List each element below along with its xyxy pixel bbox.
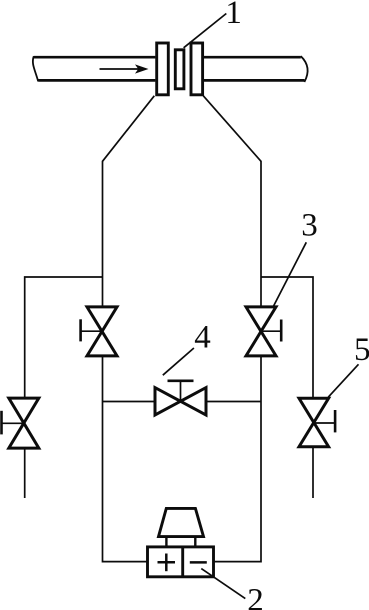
transmitter neck right [194,537,196,547]
pipe top wall right segment [204,56,301,59]
equalizing valve 4 [155,381,206,415]
minus sign (LP chamber) [190,561,207,564]
svg-text:1: 1 [225,0,242,31]
transmitter 2 head (trapezoid) [159,508,204,536]
svg-text:5: 5 [354,332,369,368]
svg-text:4: 4 [194,319,211,355]
pipe right break line [301,56,308,82]
leader line to label 3 [273,242,307,307]
transmitter 2 body [148,547,214,577]
low-pressure impulse line (right vertical + bottom elbow) [214,161,261,562]
svg-text:3: 3 [301,208,318,244]
right blowdown branch wire [261,277,313,498]
pipe bottom wall right segment [204,79,305,82]
equalizer wire [103,401,262,403]
left blowdown branch wire [25,277,103,498]
leader line to label 2 [201,569,245,599]
shutoff valve left (on HP line) [81,307,117,356]
pipe left break line [33,56,38,81]
transmitter chamber divider [181,547,184,577]
orifice flange left [157,43,169,95]
impulse line left diagonal [103,96,155,162]
blowdown valve far-left [2,398,39,448]
plus sign (HP chamber) [158,554,176,572]
orifice flange right [191,43,203,95]
flow arrow [100,64,149,73]
leader line to label 1 [184,14,227,48]
svg-text:2: 2 [247,583,264,610]
leader line to label 5 [328,364,358,397]
leader line to label 4 [163,348,194,375]
shutoff valve 3 (on LP line) [246,307,281,356]
impulse line right diagonal [203,96,261,162]
orifice plate 1 [175,50,184,89]
pipe bottom wall left segment [38,79,155,82]
transmitter neck left [165,537,167,547]
high-pressure impulse line (left vertical + bottom elbow) [103,161,148,562]
pipe top wall left segment [34,56,156,59]
blowdown valve 5 far-right [299,398,335,446]
